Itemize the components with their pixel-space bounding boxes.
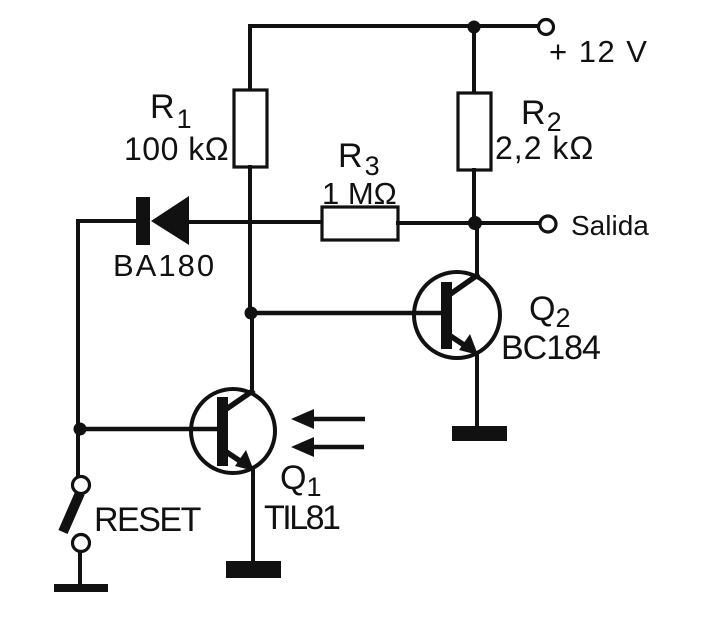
resistor R1 — [234, 90, 267, 167]
light arrow 2 shaft — [312, 445, 364, 450]
wire: Q1 emitter to ground — [251, 468, 255, 562]
wire: rail down to R1 — [248, 24, 252, 92]
svg-text:RESET: RESET — [94, 501, 201, 539]
svg-text:BA180: BA180 — [113, 248, 216, 283]
junction: rail / R2 branch — [468, 21, 481, 34]
transistor Q2 body circle — [414, 272, 500, 358]
svg-text:Salida: Salida — [571, 210, 649, 241]
diode D1 BA180 cathode bar — [136, 197, 150, 245]
light arrow 1 shaft — [312, 417, 365, 422]
wire: node A to Q2 base — [251, 311, 442, 316]
transistor Q2 emitter arrowhead — [459, 334, 478, 355]
transistor Q1 base bar — [217, 397, 228, 466]
wire: left net horizontal (to diode) — [77, 219, 140, 223]
junction: node A (collector of Q1, R1, base of Q2) — [245, 307, 258, 320]
svg-text:TIL81: TIL81 — [264, 499, 340, 537]
resistor R2 — [458, 93, 491, 170]
junction: output node — [468, 216, 482, 230]
switch SW1 bottom contact circle — [73, 535, 90, 552]
switch SW1 lever — [63, 493, 80, 532]
light arrow 2 head — [291, 437, 314, 457]
diode D1 BA180 triangle — [151, 196, 189, 245]
wire: left vertical (diode to reset switch) — [76, 219, 80, 477]
terminal: +12V supply (open circle) — [539, 20, 554, 35]
wire: switch to ground — [78, 551, 82, 587]
ground: reset switch (bar) — [54, 584, 108, 592]
wire: R3 to output node — [396, 221, 540, 225]
wire: diode to R3 — [189, 220, 324, 224]
wire: node A down to Q1 collector — [250, 313, 254, 392]
transistor Q2 emitter stroke — [449, 335, 467, 347]
wire: rail down to R2 — [472, 24, 476, 95]
wire: output node down to Q2 collector — [475, 223, 479, 276]
transistor Q2 collector stroke — [449, 274, 479, 295]
transistor Q1 body circle — [191, 389, 275, 473]
wire: Q2 emitter to ground — [475, 352, 479, 427]
terminal: Salida output (open circle) — [540, 216, 556, 232]
switch SW1 top contact circle — [73, 477, 90, 494]
transistor Q1 collector stroke — [225, 390, 254, 410]
svg-text:+ 12 V: + 12 V — [549, 34, 649, 69]
ground: Q1 emitter (filled bar) — [226, 561, 281, 578]
svg-text:BC184: BC184 — [501, 329, 600, 367]
wire: Q1 base wire — [78, 427, 218, 432]
transistor Q1 emitter arrowhead — [235, 450, 254, 471]
transistor Q2 base bar — [441, 282, 452, 349]
svg-text:1 MΩ: 1 MΩ — [322, 176, 397, 211]
svg-text:100 kΩ: 100 kΩ — [124, 131, 229, 167]
transistor Q1 emitter stroke — [225, 451, 243, 463]
light arrow 1 head — [291, 409, 314, 429]
wire: +12V top rail — [251, 24, 538, 28]
junction: node A / Q1 base — [74, 423, 87, 436]
resistor R3 — [322, 207, 398, 240]
wire: R2 bottom to output node — [472, 168, 476, 223]
svg-text:2,2 kΩ: 2,2 kΩ — [495, 130, 594, 166]
wire: R1 bottom to node A — [248, 165, 252, 314]
ground: Q2 emitter (filled bar) — [452, 426, 507, 441]
